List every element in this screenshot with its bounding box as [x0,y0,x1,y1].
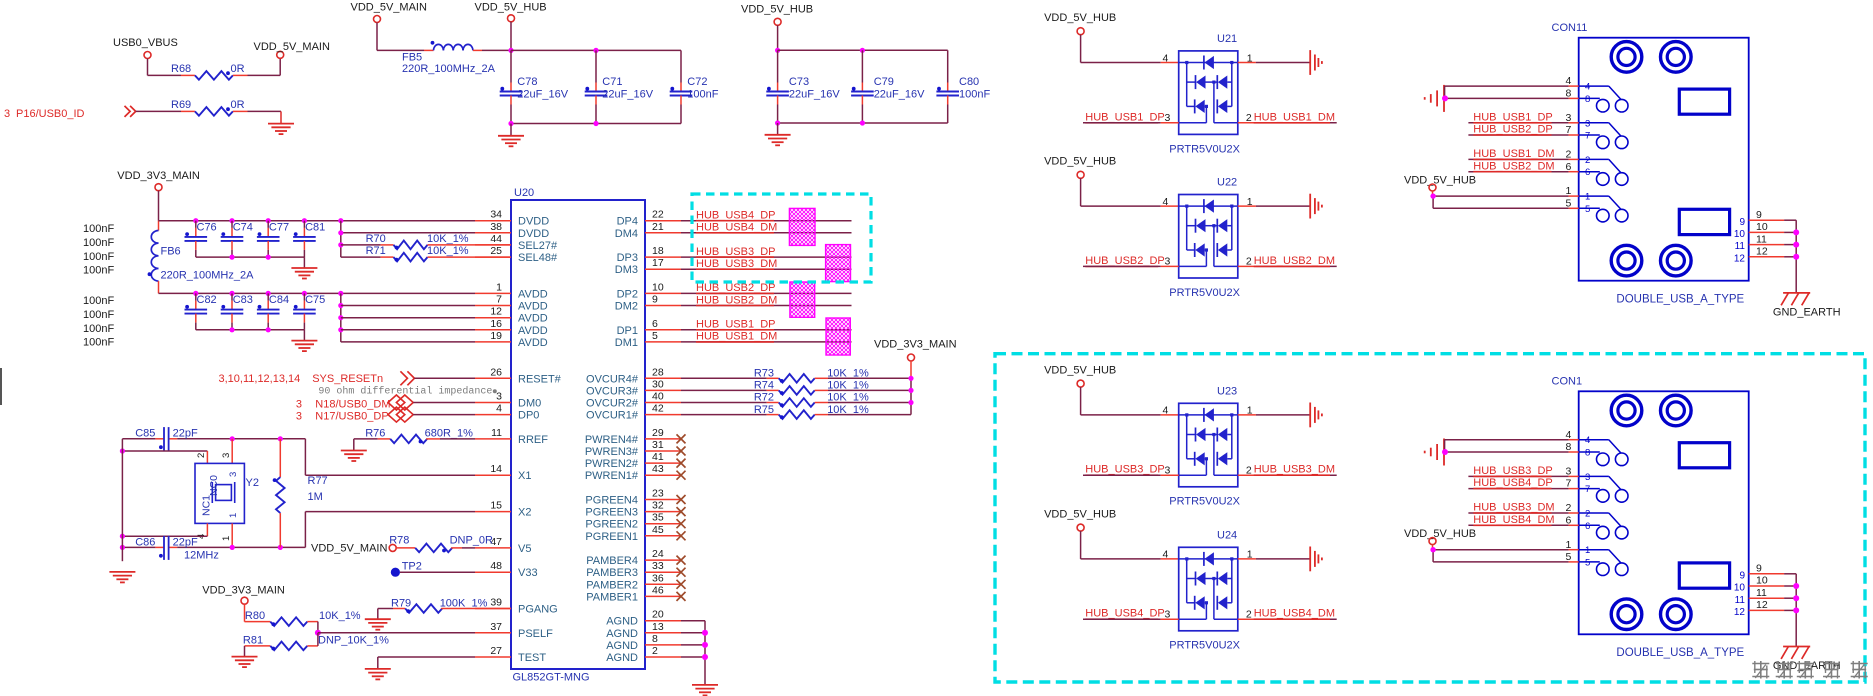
resistor R68 [195,71,233,80]
svg-text:C78: C78 [517,76,537,88]
svg-text:HUB_USB1_DP: HUB_USB1_DP [1085,111,1164,123]
junction [860,120,865,125]
capacitor C84 [257,293,280,329]
svg-text:100nF: 100nF [83,337,114,349]
ground [109,572,135,583]
svg-text:PGREEN2: PGREEN2 [585,519,638,531]
wire HUB_USB4_DM [1468,524,1578,526]
junction [593,121,598,126]
U20 pin 38 (DVDD) [475,232,511,234]
wire [828,389,911,391]
U20 pin number 14 [490,463,502,475]
U20 pin 8 (AGND) [645,644,681,646]
svg-text:17: 17 [652,257,664,269]
connector pin number 6 [1565,161,1571,173]
wire [341,329,475,331]
U20 pin name DVDD [518,228,549,240]
resistor R77 pin 1 [279,439,281,477]
junction [229,327,234,332]
svg-text:PWREN2#: PWREN2# [585,458,639,470]
resistor R71 value [427,245,469,257]
svg-text:5: 5 [1585,557,1590,568]
svg-text:1: 1 [221,536,232,541]
net label SYS_RESETn [312,373,383,385]
chassis ground (shield) [1425,85,1444,112]
svg-text:C76: C76 [197,222,217,234]
svg-text:HUB_USB4_DP: HUB_USB4_DP [1473,477,1552,489]
svg-text:33: 33 [652,560,664,572]
ferrite bead FB6 pin 2 [158,281,160,293]
ground [498,124,524,147]
resistor R69 pin 2 [233,110,248,112]
resistor R81 pin 2 [307,645,318,647]
svg-text:R71: R71 [366,245,386,257]
capacitor C72 value [687,89,718,101]
U20 pin name DM0 [518,398,541,410]
U20 pin number 21 [652,221,664,233]
resistor R79 [405,604,442,613]
svg-text:AGND: AGND [606,616,638,628]
svg-text:10: 10 [652,281,664,293]
svg-text:38: 38 [490,221,502,233]
net label HUB_USB1_DP [1473,111,1552,123]
wire VDD_5V_HUB rail [778,49,948,51]
svg-text:6: 6 [1585,167,1590,178]
wire USB0_DP [413,414,475,416]
svg-text:PWREN1#: PWREN1# [585,470,639,482]
U20 pin number 41 [652,451,664,463]
U20 pin 41 (PWREN2#) [645,462,681,464]
resistor R75 pin 2 [815,414,828,416]
power terminal VDD_5V_HUB (U22) [1077,171,1084,178]
wire AGND [681,620,705,622]
U20 pin name PGREEN3 [585,507,638,519]
junction [1793,583,1799,589]
svg-text:HUB_USB1_DM: HUB_USB1_DM [696,331,777,343]
wire HUB_USB2_DM [1468,171,1578,173]
svg-text:1M: 1M [308,491,323,503]
net label N18/USB0_DM [296,398,391,410]
ground [341,439,367,461]
U20 pin number 23 [652,488,664,500]
net label sheet refs 3,10,11,12,13,14 [219,373,301,385]
junction [1442,449,1448,455]
resistor R71 designator [366,245,386,257]
capacitor C73 designator [789,76,809,88]
resistor R76 designator [365,427,385,439]
resistor R74 value 10K_1% [827,380,869,392]
svg-text:HUB_USB1_DM: HUB_USB1_DM [1254,111,1335,123]
wire [462,547,475,549]
svg-text:4: 4 [496,403,502,415]
wire AGND [681,644,705,646]
svg-text:V5: V5 [518,543,531,555]
connector CON1 designator [1552,376,1583,388]
svg-text:R79: R79 [391,597,411,609]
svg-text:C82: C82 [197,294,217,306]
svg-text:DP3: DP3 [617,252,638,264]
connector shell circle [1661,245,1692,276]
junction [1442,95,1448,101]
U20 pin 7 (AVDD) [475,305,511,307]
resistor R78 designator [389,535,409,547]
ground [365,657,391,679]
capacitor C82 designator [197,294,217,306]
U20 pin name PGREEN4 [585,495,638,507]
port symbol N18/USB0_DM [388,395,413,410]
connector CON1 DOUBLE_USB_A_TYPE body [1579,391,1749,634]
svg-text:16: 16 [490,318,502,330]
svg-text:PSELF: PSELF [518,628,553,640]
wire [136,110,181,112]
svg-text:30: 30 [652,378,664,390]
wire X2 [305,512,475,548]
resistor R81 value DNP_10K_1% [318,635,389,647]
svg-text:HUB_USB4_DM: HUB_USB4_DM [696,222,777,234]
watermark text [1752,661,1867,679]
connector pin number 1 [1565,185,1571,197]
wire HUB_USB4_DP [681,220,852,222]
junction [266,218,271,223]
IC U20 designator [514,187,534,199]
connector pin number 4 [1565,75,1571,87]
U20 pin name PSELF [518,628,553,640]
U20 pin name DM3 [615,264,638,276]
svg-text:X2: X2 [518,507,531,519]
svg-text:48: 48 [490,560,502,572]
svg-text:28: 28 [652,366,664,378]
U20 pin name V5 [518,543,531,555]
wire [148,59,182,76]
U20 pin name DP3 [617,252,638,264]
connector pin 10 [1749,585,1797,587]
net label VDD_5V_HUB (CON1) [1404,528,1476,540]
capacitor C79 designator [874,76,894,88]
value label 100nF (C81) [83,265,114,277]
wire crystal top (XTAL1) [122,438,305,440]
net label HUB_USB2_DM [1473,160,1554,172]
power terminal VDD_3V3_MAIN [908,354,915,361]
power terminal VDD_5V_HUB [508,15,515,22]
ESD protection U24 PRTR5V0U2X body [1179,547,1238,631]
U20 pin number 34 [490,209,502,221]
svg-text:1: 1 [1585,545,1590,556]
svg-text:4: 4 [1163,405,1169,417]
svg-text:C80: C80 [959,76,979,88]
U20 pin 3 (DM0) [475,402,511,404]
svg-text:DVDD: DVDD [518,216,549,228]
svg-text:DM0: DM0 [518,398,541,410]
capacitor C86 designator [135,536,155,548]
U20 pin number 43 [652,463,664,475]
svg-text:10: 10 [1734,229,1746,240]
svg-text:VDD_5V_MAIN: VDD_5V_MAIN [254,41,330,53]
svg-text:26: 26 [490,366,502,378]
no-connect pin 46 [677,592,686,601]
connector CON11 designator [1552,22,1588,34]
connector shell circle [1611,395,1642,426]
U22 pin 3 [1161,256,1179,268]
svg-text:C72: C72 [687,76,707,88]
svg-text:4: 4 [1585,435,1590,446]
connector pin 8 stub [1569,97,1579,99]
svg-text:DM4: DM4 [615,228,638,240]
U20 pin 21 (DM4) [645,232,681,234]
junction [230,545,235,550]
connector pin number 2 [1565,149,1571,161]
svg-text:100nF: 100nF [687,89,718,101]
wire HUB_USB3_DM [1468,512,1578,514]
svg-text:12: 12 [490,306,502,318]
junction [278,436,283,441]
capacitor C71 value [602,89,653,101]
U20 pin number 1 [496,281,502,293]
ferrite bead FB6 designator [161,246,181,258]
no-connect pin 41 [677,459,686,468]
junction [229,291,234,296]
junction [1793,607,1799,613]
chassis ground [1310,50,1322,75]
U24 designator [1217,529,1237,541]
junction [278,545,283,550]
wire [341,232,475,234]
U20 pin name DM2 [615,301,638,313]
svg-text:GL852GT-MNG: GL852GT-MNG [513,672,590,684]
svg-text:PRTR5V0U2X: PRTR5V0U2X [1169,640,1240,652]
svg-text:100nF: 100nF [83,323,114,335]
resistor R68 value 0R [231,63,245,75]
junction [860,48,865,53]
connector CON11 value DOUBLE_USB_A_TYPE [1616,294,1744,306]
svg-text:6: 6 [1585,521,1590,532]
svg-text:HUB_USB2_DM: HUB_USB2_DM [1473,160,1554,172]
U20 pin name AVDD [518,313,548,325]
capacitor C80 [936,50,959,123]
svg-text:CON1: CON1 [1552,376,1583,388]
svg-text:VDD_5V_HUB: VDD_5V_HUB [1044,364,1116,376]
U20 pin number 45 [652,524,664,536]
U24 pin 1 [1238,549,1256,561]
svg-text:HUB_USB3_DP: HUB_USB3_DP [1473,465,1552,477]
junction [193,291,198,296]
svg-text:DM3: DM3 [615,264,638,276]
svg-text:OVCUR1#: OVCUR1# [586,410,639,422]
U20 pin number 39 [490,597,502,609]
svg-text:42: 42 [652,403,664,415]
resistor R68 designator [171,63,191,75]
resistor R70 designator [366,233,386,245]
crystal Y2 pin 4 [196,523,207,539]
resistor R70 [394,241,428,250]
U20 pin name V33 [518,567,538,579]
svg-text:R75: R75 [754,404,774,416]
power terminal VDD_5V_MAIN [389,544,396,551]
svg-text:VDD_5V_HUB: VDD_5V_HUB [741,4,813,16]
svg-text:NC0: NC0 [208,475,220,496]
svg-text:VDD_3V3_MAIN: VDD_3V3_MAIN [874,339,957,351]
junction [508,121,513,126]
connector shell circle [1661,42,1692,73]
svg-text:2: 2 [196,453,207,458]
wire HUB_USB3_DM [1256,474,1337,476]
connector pin name 9 [1739,217,1745,228]
svg-text:PRTR5V0U2X: PRTR5V0U2X [1169,143,1240,155]
wire [244,604,246,622]
svg-text:4: 4 [1163,52,1169,64]
svg-text:46: 46 [652,584,664,596]
net label N17/USB0_DP [296,411,389,423]
svg-text:DOUBLE_USB_A_TYPE: DOUBLE_USB_A_TYPE [1616,294,1744,306]
net label VDD_5V_MAIN [254,41,330,53]
wire HUB_USB3_DP [1083,474,1161,476]
junction [266,255,271,260]
U20 pin 30 (OVCUR3#) [645,389,681,391]
no-connect pin 32 [677,507,686,516]
svg-text:RREF: RREF [518,434,548,446]
wire GND bus [1795,220,1797,293]
ferrite bead FB6 value [161,270,255,282]
wire HUB_USB3_DP [681,256,852,258]
wire HUB_USB1_DM [1468,158,1578,160]
U20 pin 9 (DM2) [645,305,681,307]
svg-text:C74: C74 [233,222,253,234]
capacitor C86 value 22pF [173,536,198,548]
U20 pin name AVDD [518,288,548,300]
U20 pin number 13 [652,621,664,633]
svg-text:0R: 0R [231,99,245,111]
net label HUB_USB3_DP [696,246,775,258]
svg-text:VDD_5V_HUB: VDD_5V_HUB [1404,528,1476,540]
wire [196,256,305,258]
U20 pin number 29 [652,427,664,439]
U20 pin number 11 [491,427,502,439]
power terminal VDD_5V_MAIN [277,51,284,58]
wire [828,377,911,379]
resistor R74 [779,386,815,395]
U22 pin 4 [1161,196,1179,208]
svg-text:HUB_USB1_DP: HUB_USB1_DP [1473,111,1552,123]
junction [775,120,780,125]
connector pin 8 stub [1569,451,1579,453]
svg-text:2: 2 [1246,256,1252,268]
svg-text:1: 1 [1247,549,1253,561]
U24 pin 3 [1161,608,1179,620]
connector pin 1 stub [1569,549,1579,551]
ferrite bead FB5 value [402,63,496,75]
junction [229,218,234,223]
junction [120,545,125,550]
net label VDD_5V_HUB [475,2,547,14]
capacitor C81 [293,221,316,257]
svg-text:100nF: 100nF [83,251,114,263]
U20 pin number 37 [490,621,502,633]
svg-text:8: 8 [1585,94,1590,105]
U20 pin 32 (PGREEN3) [645,511,681,513]
net label HUB_USB1_DM [1254,111,1335,123]
connector pin name 9 [1739,570,1745,581]
U23 pin 1 [1238,405,1256,417]
U20 pin name RREF [518,434,548,446]
wire AGND [681,656,705,658]
svg-text:7: 7 [1585,484,1590,495]
U22 designator [1217,177,1237,189]
svg-text:15: 15 [490,500,502,512]
svg-text:OVCUR4#: OVCUR4# [586,373,639,385]
net label GND_EARTH [1773,660,1841,672]
ground [268,111,294,134]
U20 pin 47 (V5) [475,547,511,549]
wire [828,402,911,404]
net label HUB_USB1_DP [696,319,775,331]
net label VDD_5V_MAIN [351,2,427,14]
U20 pin 17 (DM3) [645,268,681,270]
connector pin name 8 [1585,448,1590,459]
svg-text:18: 18 [652,245,664,257]
connector pin 5 stub [1569,207,1579,209]
svg-text:22uF_16V: 22uF_16V [874,89,925,101]
wire GND bus [1795,574,1797,647]
svg-text:1: 1 [1247,52,1253,64]
wire AGND bus [704,621,706,685]
connector pin number 7 [1565,478,1571,490]
wire [440,438,475,440]
net label HUB_USB4_DM [1254,608,1335,620]
connector pin 12 [1749,609,1797,611]
value label 100nF (C82) [83,295,114,307]
svg-text:PGREEN1: PGREEN1 [585,531,638,543]
wire HUB_USB1_DM [681,341,852,343]
svg-text:21: 21 [652,221,664,233]
svg-text:DVDD: DVDD [518,228,549,240]
svg-text:C73: C73 [789,76,809,88]
U20 pin name X1 [518,470,531,482]
svg-text:VDD_5V_MAIN: VDD_5V_MAIN [311,542,387,554]
U20 pin number 46 [652,584,664,596]
U20 pin 14 (X1) [475,474,511,476]
wire [1256,558,1310,560]
resistor R77 value 1M [308,491,323,503]
U20 pin 37 (PSELF) [475,632,511,634]
svg-text:37: 37 [490,621,502,633]
ferrite bead FB5 designator [402,52,422,64]
ferrite bead FB5 [431,41,473,51]
resistor R75 [779,410,815,419]
net label HUB_USB4_DM [1473,514,1554,526]
svg-text:SEL27#: SEL27# [518,240,558,252]
wire HUB_USB2_DP [681,292,852,294]
connector pin name 5 [1585,204,1590,215]
svg-text:HUB_USB2_DM: HUB_USB2_DM [696,294,777,306]
U20 pin 48 (V33) [475,571,511,573]
wire OVCUR [681,377,767,379]
resistor R72 [779,398,815,407]
connector pin name 12 [1734,607,1746,618]
wire DVDD rail [159,220,476,222]
U20 pin 35 (PGREEN2) [645,523,681,525]
svg-text:R81: R81 [243,635,263,647]
svg-text:NC1: NC1 [201,495,213,516]
U20 pin 29 (PWREN4#) [645,438,681,440]
resistor R73 pin 2 [815,377,828,379]
junction [266,291,271,296]
chassis ground [1310,403,1322,428]
wire OVCUR [681,389,767,391]
resistor R80 [270,617,307,626]
svg-text:HUB_USB2_DP: HUB_USB2_DP [1085,255,1164,267]
svg-text:3: 3 [4,108,10,120]
svg-text:PAMBER3: PAMBER3 [586,567,638,579]
connector pin name 12 [1734,253,1746,264]
